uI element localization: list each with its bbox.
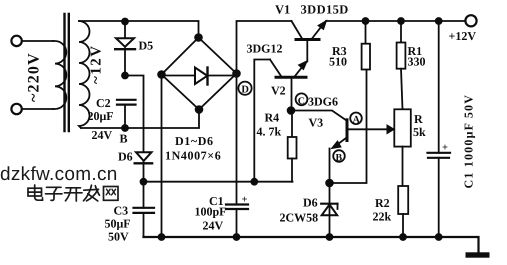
svg-text:+: + [442,143,448,154]
junction bridge top corner [195,34,202,41]
junction [400,234,406,240]
junction node B [122,125,128,131]
svg-text:D5: D5 [139,39,154,53]
svg-text:20μF: 20μF [88,109,114,123]
svg-text:100pF: 100pF [195,205,227,219]
zener diode D6 (2CW58) [321,183,337,237]
transistor V2 [270,60,307,111]
svg-text:C: C [298,96,305,107]
junction [398,18,404,24]
svg-text:R: R [414,112,423,126]
junction [363,18,369,24]
svg-text:24V: 24V [203,219,224,233]
transformer T primary terminal top [11,36,21,46]
transformer T secondary winding [79,21,90,128]
wire R3 bottom to node B2 [330,70,367,184]
svg-text:V1: V1 [275,3,290,17]
svg-text:C2: C2 [96,96,111,110]
capacitor C2 [117,100,136,128]
junction V2 collector feed [251,179,257,185]
terminal +12V [465,15,476,26]
svg-text:D: D [241,85,249,96]
svg-text:D1~D6: D1~D6 [175,134,214,148]
wire bottom ground rail [144,237,479,253]
wire node D up to V1 collector rail [237,21,292,74]
junction node X (D5 cathode / C2 top / D6 branch) [122,73,128,79]
wire node D down through C1a [236,74,238,205]
node D circle label [238,82,251,95]
svg-text:2CW58: 2CW58 [280,211,319,225]
svg-text:dzkfw.com.cn: dzkfw.com.cn [0,164,118,185]
svg-text:~220V: ~220V [26,52,43,102]
resistor R4 [288,111,297,182]
wire output rail V1 emitter to +12V terminal [326,20,465,22]
svg-text:C1 1000μF 50V: C1 1000μF 50V [462,94,476,189]
svg-text:22k: 22k [373,210,392,224]
resistor R3 [362,21,370,70]
svg-text:D6: D6 [303,196,318,210]
bridge rectifier D1-D4 diamond [162,38,237,110]
svg-text:330: 330 [408,55,426,69]
svg-text:3DD15D: 3DD15D [301,3,349,17]
svg-text:510: 510 [329,55,347,69]
wire V2 collector to aux rail [254,60,270,182]
junction bridge right corner (node D) [233,70,240,77]
svg-text:R2: R2 [375,196,390,210]
svg-text:50V: 50V [108,230,129,244]
capacitor C3 [134,182,155,237]
junction [436,234,442,240]
svg-text:4. 7k: 4. 7k [257,125,282,139]
diode D5 [115,38,135,75]
junction bridge left corner [158,71,165,78]
svg-text:5k: 5k [413,125,426,139]
watermark Chinese characters (drawn strokes) [28,185,118,201]
svg-text:V2: V2 [271,84,286,98]
diode D6 (left) [135,152,152,182]
junction [436,18,442,24]
ground [466,252,490,257]
wire node C to V3 collector [291,111,347,121]
resistor R2 [398,186,408,237]
junction [234,234,240,240]
resistor R1 [397,21,406,109]
transistor V3 [330,120,389,183]
svg-text:B: B [120,132,128,146]
wire node B to bridge bottom [125,110,199,129]
svg-text:3DG6: 3DG6 [308,95,338,109]
transformer core [63,14,65,131]
svg-text:C3: C3 [114,204,129,218]
wire [22,40,53,42]
wire secondary bottom to node B [81,127,125,129]
junction [159,234,165,240]
node C circle label [296,93,308,105]
capacitor C1 (100pF) [226,205,248,238]
junction node B2 (V3 emitter / zener / R3) [326,180,333,187]
transistor V1 [292,21,327,62]
node A circle label [350,113,362,125]
transformer T primary terminal bottom [11,104,21,114]
wire [22,108,53,110]
wire top rail left (secondary top to bridge top) [79,21,199,36]
junction [122,19,128,25]
svg-text:~12V: ~12V [89,44,105,84]
svg-text:B: B [336,152,343,163]
svg-text:24V: 24V [92,128,113,142]
svg-text:V3: V3 [309,116,324,130]
wire aux rail to R4 bottom [144,181,293,183]
transformer T primary winding [53,41,66,109]
junction bridge bottom corner [196,106,203,113]
junction aux node (D6 anode / C3 / R4 feed) [141,179,147,185]
junction node C [288,107,295,114]
wire D5 branch from top rail [124,21,126,38]
wire node X to D6 [125,76,144,152]
wire bridge left corner to ground rail [161,75,163,238]
potentiometer R (5k) [387,109,411,186]
node B circle label [333,150,345,162]
svg-text:A: A [353,115,361,126]
svg-text:3DG12: 3DG12 [247,42,283,56]
svg-text:R4: R4 [265,111,280,125]
svg-text:D6: D6 [118,150,133,164]
svg-text:1N4007×6: 1N4007×6 [165,149,221,163]
svg-text:+: + [242,195,248,206]
svg-text:50μF: 50μF [105,217,131,231]
capacitor C1b (1000uF) [428,21,451,237]
svg-text:+12V: +12V [449,29,477,43]
junction [327,234,333,240]
